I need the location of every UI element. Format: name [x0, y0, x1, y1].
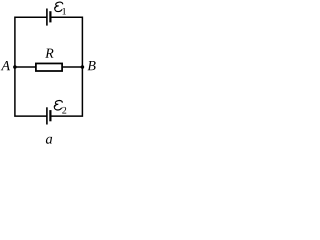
label a (figure caption): [46, 137, 52, 144]
label E1 script E: [54, 2, 62, 11]
battery E2 short plate: [49, 110, 51, 121]
label A: [1, 61, 10, 70]
label E2 script E: [54, 101, 62, 110]
battery E1 long plate: [46, 9, 48, 26]
node A dot: [13, 65, 17, 69]
label R: [45, 49, 53, 58]
node B dot: [81, 65, 85, 69]
E2 subscript 2: [62, 107, 66, 114]
wire node A to resistor: [15, 66, 36, 68]
resistor R box: [36, 63, 62, 71]
wire left loop: top-left wire, left side wire, bottom-left wire: [15, 17, 47, 116]
wire resistor to node B: [62, 66, 83, 68]
battery E2 long plate: [46, 107, 48, 124]
E1 subscript 1: [62, 8, 66, 15]
wire right loop: top-right wire, right side wire, bottom-right wire: [50, 17, 82, 116]
battery E1 short plate: [49, 11, 51, 22]
label B: [88, 61, 96, 70]
